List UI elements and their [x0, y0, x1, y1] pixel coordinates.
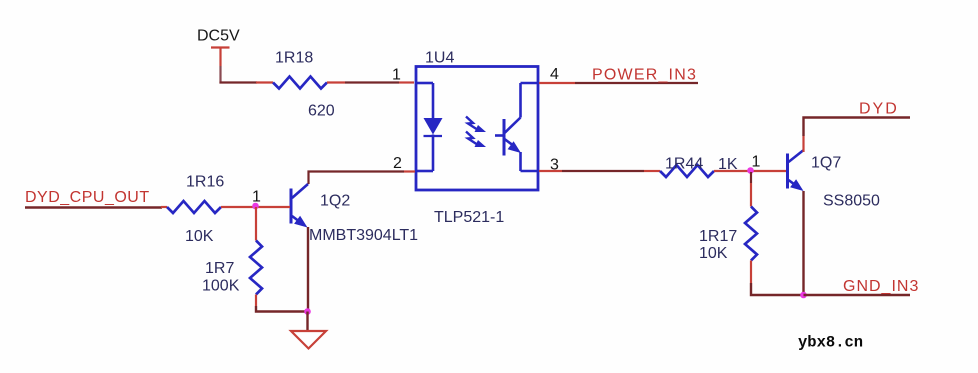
wire red stub at pin1: [399, 81, 414, 83]
power symbol DC5V: [211, 48, 230, 67]
wire node down maroon stub: [750, 172, 752, 183]
svg-text:1Q2: 1Q2: [320, 193, 350, 210]
wire Q7 emitter down maroon: [802, 191, 804, 295]
svg-text:ybx8.cn: ybx8.cn: [798, 334, 863, 352]
wire pin2 maroon to collector corner: [309, 172, 405, 185]
wire R18 to pin1 red: [327, 81, 345, 83]
phototransistor inside optocoupler: [495, 83, 537, 171]
wire GND_IN3 maroon: [804, 294, 911, 296]
wire pin3 red: [539, 170, 562, 172]
svg-text:10K: 10K: [699, 245, 728, 262]
resistor 1R44: [660, 165, 714, 177]
resistor 1R17 (vertical): [745, 207, 757, 261]
wire R18 to pin1 maroon: [345, 81, 399, 83]
svg-text:1U4: 1U4: [425, 50, 454, 67]
wire R17 bottom red: [750, 261, 752, 284]
wire R16 to Q2 base red: [221, 206, 290, 208]
ground: [291, 331, 326, 349]
wire Q2 emitter down maroon: [307, 227, 309, 312]
resistor 1R16: [167, 201, 221, 213]
wire red into R18: [256, 81, 273, 83]
wire top row corner to R18 (maroon): [221, 82, 258, 83]
optocoupler U4 (1U4 TLP521-1) box: [416, 67, 538, 191]
resistor 1R7 (vertical): [250, 241, 262, 295]
svg-text:1R7: 1R7: [205, 260, 234, 277]
wire DYD_CPU_OUT maroon: [25, 206, 162, 208]
svg-text:SS8050: SS8050: [823, 193, 880, 210]
wire DYD corner maroon: [804, 118, 911, 137]
wire POWER_IN3 maroon: [575, 82, 698, 84]
wire R44 to Q7 base red: [714, 170, 786, 172]
node GND junction: [800, 292, 807, 299]
wire stem to ground: [306, 312, 308, 331]
resistor 1R18: [273, 77, 327, 89]
svg-text:100K: 100K: [202, 278, 240, 295]
wire pin4 to POWER_IN3 red: [539, 82, 575, 84]
LED inside optocoupler: [417, 83, 442, 171]
wire red into R44: [644, 170, 660, 172]
wire red to R17: [750, 183, 752, 207]
svg-text:2: 2: [393, 155, 402, 172]
svg-text:POWER_IN3: POWER_IN3: [592, 67, 697, 84]
wire DC5V stem lower: [219, 66, 221, 82]
svg-text:1R44: 1R44: [665, 156, 703, 173]
svg-text:MMBT3904LT1: MMBT3904LT1: [309, 227, 418, 244]
svg-text:10K: 10K: [185, 228, 214, 245]
node ground junction: [304, 308, 311, 315]
node junction at Q2 base: [252, 203, 259, 210]
node junction at Q7 base: [747, 167, 754, 174]
svg-text:DYD_CPU_OUT: DYD_CPU_OUT: [25, 189, 150, 206]
wire R7 bottom red: [255, 295, 257, 307]
svg-text:1: 1: [392, 67, 401, 84]
wire R7 corner to ground junction maroon: [256, 306, 307, 312]
transistor Q2: 1Q2: [291, 184, 308, 224]
wire node down to R7 red: [255, 207, 257, 241]
wire R17 corner maroon: [751, 283, 804, 295]
svg-text:1R18: 1R18: [275, 50, 313, 67]
svg-text:DYD: DYD: [859, 101, 899, 118]
svg-text:DC5V: DC5V: [197, 28, 240, 45]
svg-text:TLP521-1: TLP521-1: [434, 209, 504, 226]
transistor Q7: 1Q7: [788, 151, 804, 189]
svg-text:1Q7: 1Q7: [811, 155, 841, 172]
wire red into R16: [161, 206, 167, 208]
wire pin3 maroon run: [562, 170, 644, 172]
light arrow 2: [466, 132, 478, 146]
svg-text:1R16: 1R16: [186, 174, 224, 191]
svg-text:620: 620: [308, 103, 335, 120]
light arrow 1: [466, 117, 478, 131]
svg-text:1: 1: [752, 154, 761, 171]
svg-text:4: 4: [550, 66, 559, 83]
wire Q7 collector red up: [802, 136, 804, 152]
svg-text:1R17: 1R17: [699, 228, 737, 245]
svg-text:GND_IN3: GND_IN3: [843, 278, 919, 295]
wire pin2 red stub: [404, 170, 415, 172]
